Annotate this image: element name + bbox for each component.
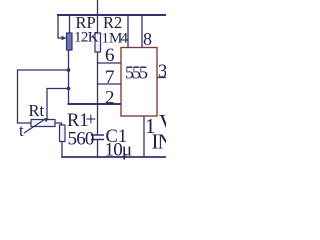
resistor R2 body	[95, 33, 101, 52]
wire R2 bottom lead down to C1	[97, 52, 99, 135]
wire W2 node A to Rt arrow	[47, 89, 69, 118]
potentiometer RP wiper arrowhead	[62, 36, 67, 40]
wire Rt right lead to R1	[55, 123, 62, 125]
potentiometer RP body	[67, 33, 73, 50]
wire pin3 output	[157, 77, 166, 79]
svg-text:Rt: Rt	[29, 101, 45, 120]
svg-text:560: 560	[68, 129, 94, 150]
node A junction dot 1	[67, 68, 71, 72]
svg-text:555: 555	[125, 63, 148, 83]
capacitor C1 plates	[91, 135, 104, 140]
svg-text:8: 8	[143, 29, 152, 49]
wire pin6 stub	[98, 62, 122, 64]
wire pin4	[127, 15, 129, 48]
svg-text:6: 6	[105, 45, 115, 66]
wire R2 top lead	[97, 0, 99, 33]
thermistor Rt diagonal arrow	[24, 119, 46, 134]
svg-text:R2: R2	[103, 13, 122, 32]
wire RP bottom column node A	[68, 50, 70, 104]
wire pin1 ground	[143, 116, 145, 157]
op 555 IC box U1	[121, 48, 157, 117]
wire RP top terminal	[69, 15, 71, 33]
wire pin2 horizontal	[69, 103, 122, 105]
wire pin7 stub	[98, 83, 122, 85]
thermistor Rt body	[31, 120, 55, 127]
resistor R1 body	[60, 125, 66, 142]
wire RP wiper column from rail	[58, 15, 62, 38]
node A junction dot 2	[67, 87, 71, 91]
wire W1 node A to left rail to Rt left	[18, 70, 69, 123]
wire bottom rail ground	[62, 156, 166, 158]
svg-text:3: 3	[158, 62, 166, 82]
svg-text:t: t	[19, 121, 24, 140]
wire top rail Vcc	[58, 14, 166, 16]
svg-text:10μ: 10μ	[105, 140, 132, 161]
svg-text:+: +	[86, 110, 97, 131]
wire C1 bottom lead	[97, 140, 99, 158]
svg-text:2: 2	[105, 88, 115, 109]
svg-text:4: 4	[121, 31, 129, 47]
wire R1 bottom lead	[61, 142, 63, 158]
svg-text:7: 7	[105, 67, 115, 88]
wire pin8	[141, 15, 143, 48]
svg-text:IN: IN	[152, 130, 167, 154]
svg-text:12K: 12K	[74, 30, 99, 46]
